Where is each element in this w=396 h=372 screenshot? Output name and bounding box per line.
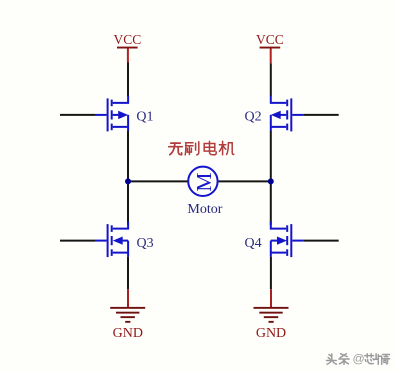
node junction dot (right) [268, 178, 274, 184]
svg-text:M: M [192, 173, 216, 192]
transistor Q2 (P-channel MOSFET, high side right) [271, 96, 304, 132]
svg-text:Q2: Q2 [245, 109, 262, 124]
ground symbol (left) [110, 289, 145, 341]
wire Q3 gate lead [60, 240, 95, 242]
svg-text:VCC: VCC [256, 32, 284, 47]
label 无刷电机 (brushless motor, red) [169, 141, 234, 155]
wire Q1 gate lead [60, 114, 95, 116]
ground symbol (right) [254, 289, 289, 341]
wire Q3 source to GND [127, 257, 129, 290]
svg-text:GND: GND [256, 326, 286, 341]
wire Q2 gate lead [304, 114, 339, 116]
wire VCC to Q1 drain [127, 63, 129, 97]
svg-text:@: @ [353, 352, 365, 366]
transistor Q4 (N-channel MOSFET, low side right) [271, 222, 304, 258]
motor M1 circle [188, 167, 217, 196]
watermark 头条@芯片哥 [327, 352, 391, 367]
svg-text:Q1: Q1 [136, 109, 153, 124]
transistor Q3 (N-channel MOSFET, low side left) [95, 222, 128, 258]
wire Q4 gate lead [304, 240, 339, 242]
svg-text:Motor: Motor [187, 202, 222, 217]
wire Q1 source to Q3 drain (left mid rail) [127, 131, 129, 225]
svg-text:Q3: Q3 [137, 236, 154, 251]
power symbol VCC (left) [114, 32, 142, 63]
power symbol VCC (right) [256, 32, 284, 63]
wire Q4 source to GND [270, 257, 272, 290]
transistor Q1 (P-channel MOSFET, high side left) [95, 96, 128, 132]
svg-text:Q4: Q4 [245, 236, 262, 251]
svg-text:GND: GND [113, 326, 143, 341]
wire VCC to Q2 drain [270, 63, 272, 96]
svg-text:VCC: VCC [114, 32, 142, 47]
wire Q2 source to Q4 drain (right mid rail) [270, 131, 272, 225]
wire left node to motor [128, 180, 188, 182]
wire motor to right node [218, 180, 271, 182]
node junction dot (left) [125, 178, 131, 184]
